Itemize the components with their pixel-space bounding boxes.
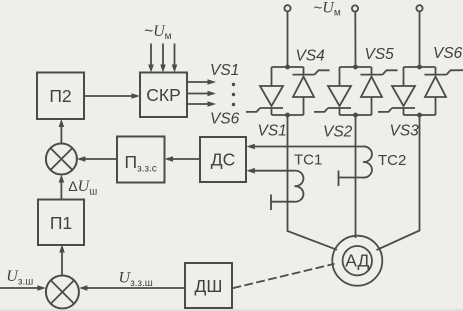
wire P1 to S1 with arrow [59, 175, 65, 200]
svg-text:Uз.ш: Uз.ш [6, 268, 33, 288]
thyristor VS1 [246, 67, 283, 115]
svg-text:ΔUш: ΔUш [68, 178, 97, 198]
wire TC1 secondary to DS bottom input [246, 168, 294, 174]
wire DSh to S2 with arrow [79, 285, 185, 291]
current transformer TC1 [271, 171, 303, 210]
node bottom [285, 113, 290, 118]
thyristor pair 3 (VS3/VS6) [378, 65, 463, 118]
three gate output arrows from SKR right [187, 79, 216, 107]
thyristor VS2 [314, 67, 351, 115]
wire bottom [340, 114, 372, 116]
svg-text:VS6: VS6 [433, 45, 463, 62]
phase terminal 2 [352, 5, 358, 11]
svg-text:~Uм: ~Uм [144, 23, 172, 42]
svg-text:VS1: VS1 [258, 123, 287, 140]
node bottom [353, 113, 358, 118]
thyristor VS5 [361, 67, 398, 115]
wire Pzzs to S1 with arrow [77, 156, 117, 162]
thyristor VS6 [425, 67, 463, 115]
block DSh [185, 263, 232, 308]
wire TC2 secondary to DS top input [246, 144, 362, 150]
node top [353, 65, 358, 70]
svg-text:СКР: СКР [146, 85, 181, 105]
wire left input into S2 with arrow [0, 285, 46, 291]
wire bottom [404, 114, 436, 116]
phase wire 2 upper [354, 12, 356, 67]
wire S1 to P2 with arrow [59, 119, 65, 144]
wire bottom [272, 114, 304, 116]
svg-text:П1: П1 [50, 213, 72, 233]
motor AD [332, 236, 382, 286]
wire S2 to P1 with arrow [59, 245, 65, 276]
svg-text:VS4: VS4 [296, 48, 326, 65]
svg-text:Пз.з.с: Пз.з.с [125, 152, 157, 175]
summing junction S1 (upper) [46, 144, 77, 175]
svg-text:П2: П2 [49, 86, 71, 106]
block SKR [140, 73, 187, 118]
wire P2 to SKR with arrow [84, 93, 140, 99]
svg-text:VS3: VS3 [390, 123, 420, 140]
phase terminal 3 [416, 5, 422, 11]
wire top [272, 66, 304, 68]
svg-text:Uз.з.ш: Uз.з.ш [119, 270, 153, 290]
wire top [340, 66, 372, 68]
svg-text:ТС2: ТС2 [378, 152, 406, 169]
dots between VS1 and VS6 [232, 83, 235, 106]
svg-text:VS6: VS6 [210, 111, 240, 128]
thyristor pair 2 (VS2/VS5) [314, 65, 398, 118]
thyristor VS3 [378, 67, 415, 115]
node top [417, 65, 422, 70]
phase wire 3 lower [377, 115, 420, 250]
three supply arrows into SKR top [148, 44, 177, 73]
phase wire 3 upper [419, 11, 421, 67]
thyristor VS4 [293, 67, 330, 115]
svg-text:ДШ: ДШ [195, 276, 223, 296]
svg-text:ТС1: ТС1 [294, 152, 322, 169]
svg-text:VS5: VS5 [365, 46, 395, 63]
svg-text:VS2: VS2 [323, 124, 353, 141]
block Pzzs [117, 137, 165, 183]
thyristor pair 1 (VS1/VS4) [246, 65, 330, 118]
block P1 [38, 200, 84, 246]
dashed link DSh to motor [233, 264, 335, 288]
wire (none) scanner shadow band [0, 309, 463, 311]
phase wire 1 upper [287, 11, 289, 67]
current transformer TC2 [339, 146, 372, 186]
phase wire 1 lower [288, 115, 338, 250]
wire top [404, 66, 436, 68]
node top [285, 65, 290, 70]
wire DS to Pzzs with arrow [165, 156, 201, 162]
svg-text:VS1: VS1 [210, 62, 239, 79]
node bottom [417, 113, 422, 118]
summing junction S2 (lower) [46, 276, 79, 309]
phase wire 2 lower [355, 115, 357, 238]
phase terminal 1 [284, 5, 290, 11]
svg-text:ДС: ДС [211, 149, 236, 169]
svg-text:~Uм: ~Uм [314, 0, 341, 19]
block DS [200, 137, 246, 182]
svg-text:АД: АД [345, 251, 369, 271]
block P2 [37, 73, 84, 120]
